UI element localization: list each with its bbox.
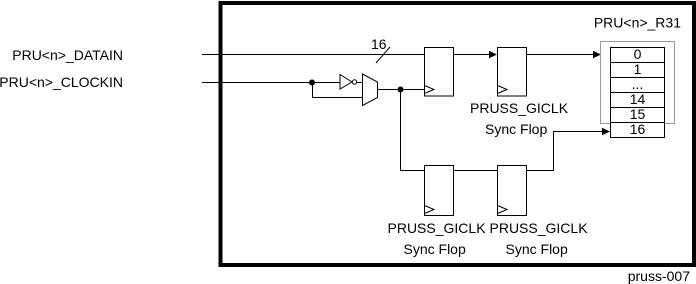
register group outline xyxy=(601,42,675,124)
mux xyxy=(363,74,378,106)
svg-text:pruss-007: pruss-007 xyxy=(628,268,690,284)
wire U2 to register R31 xyxy=(527,54,594,56)
svg-text:15: 15 xyxy=(630,106,646,122)
arrowhead into U2 xyxy=(489,51,497,58)
svg-text:PRUSS_GICLK: PRUSS_GICLK xyxy=(470,100,569,116)
wire CLOCKIN bypass xyxy=(313,83,363,98)
register bit cell 16 xyxy=(611,121,665,138)
svg-text:14: 14 xyxy=(630,91,646,107)
PRU subsystem boundary box xyxy=(221,3,695,265)
flip-flop U2 xyxy=(498,48,527,97)
inverter xyxy=(340,75,352,90)
svg-text:...: ... xyxy=(632,76,644,92)
svg-text:1: 1 xyxy=(634,61,642,77)
svg-text:PRUSS_GICLK: PRUSS_GICLK xyxy=(388,220,487,236)
wire inverter to mux xyxy=(357,82,363,84)
svg-text:Sync Flop: Sync Flop xyxy=(506,241,568,257)
register bit cell 1 xyxy=(611,61,665,78)
wire junction to sync flop U3 xyxy=(401,90,425,171)
wire DATAIN input xyxy=(202,54,424,56)
svg-text:0: 0 xyxy=(634,46,642,62)
wire U3 to U4 xyxy=(454,170,498,172)
arrowhead into register group xyxy=(593,51,601,58)
flip-flop U4 xyxy=(498,166,527,216)
svg-text:PRU<n>_R31: PRU<n>_R31 xyxy=(594,15,681,31)
arrowhead into register bit 16 xyxy=(602,128,610,135)
register PRU<n>_R31 bit cell 0 xyxy=(611,46,665,63)
svg-text:Sync Flop: Sync Flop xyxy=(404,241,466,257)
register bit cell ellipsis xyxy=(611,76,665,93)
svg-text:16: 16 xyxy=(371,36,387,52)
wire mux output xyxy=(378,89,425,91)
svg-text:PRU<n>_DATAIN: PRU<n>_DATAIN xyxy=(12,47,123,63)
flip-flop U3 xyxy=(425,166,454,216)
svg-text:PRUSS_GICLK: PRUSS_GICLK xyxy=(490,220,589,236)
inverter bubble xyxy=(352,80,356,84)
wire U4 to register bit 16 xyxy=(527,132,602,171)
svg-text:Sync Flop: Sync Flop xyxy=(485,121,547,137)
flip-flop U1 xyxy=(425,48,454,97)
bus slash xyxy=(376,47,390,63)
register bit cell 14 xyxy=(611,91,665,108)
svg-text:PRU<n>_CLOCKIN: PRU<n>_CLOCKIN xyxy=(0,74,123,90)
svg-text:16: 16 xyxy=(630,121,646,137)
node mux output junction xyxy=(398,87,404,93)
wire U1 to U2 xyxy=(454,54,490,56)
node CLOCKIN junction xyxy=(309,80,315,86)
wire CLOCKIN input xyxy=(202,82,340,84)
register bit cell 15 xyxy=(611,106,665,123)
